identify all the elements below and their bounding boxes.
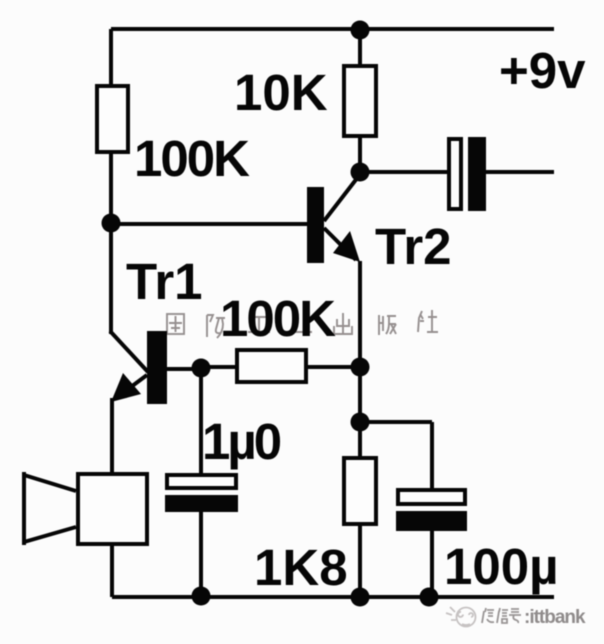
node F junction dot (Tr2 emitter / R3) [351,358,370,377]
transistor Q1 Tr1 bar [147,331,167,404]
svg-text:1K8: 1K8 [254,539,348,596]
resistor R2 10K (vertical) [344,66,376,136]
svg-text:10K: 10K [234,64,328,121]
resistor R1 100K (top left vertical) [97,86,128,152]
watermark 防 [207,315,225,338]
wire: node E to output capacitor [360,170,449,174]
capacitor C3 100u top plate [398,490,465,504]
watermark 版 [379,315,396,335]
svg-text:Tr1: Tr1 [126,253,203,310]
node I junction dot on bottom rail [420,588,439,607]
wire: node G down through R4 to bottom rail [358,422,362,597]
svg-text:100µ: 100µ [444,538,558,595]
wire: Tr1 base to node B [167,367,201,371]
node B junction dot (Tr1 base / R3 / C1) [192,359,211,378]
capacitor C2 output right plate [468,137,486,211]
wire: base rail to Tr2 [111,222,307,226]
node D junction dot on top rail [351,21,370,40]
capacitor C1 1u0 top plate [167,475,236,488]
microphone MIC cone [24,472,76,545]
svg-text:1µ0: 1µ0 [202,413,281,470]
node G junction dot (R4 / C3 branch) [351,413,370,432]
wire: +9v top rail [111,27,554,31]
svg-text:Tr2: Tr2 [375,218,452,275]
wire: Tr2 emitter down to node F [358,261,362,368]
transistor Q2 Tr2 collector diagonal [324,177,358,221]
wire: node B down to capacitor C1 [199,368,203,474]
transistor Q2 Tr2 emitter diagonal [324,228,356,260]
wire: top rail to R2 [358,29,362,66]
watermark 工 [248,317,270,332]
node H junction dot on bottom rail [351,588,370,607]
wechat label 微 [482,608,494,623]
transistor Q1 Tr1 emitter arrow [111,373,141,402]
transistor Q1 Tr1 collector diagonal [110,331,148,372]
wechat label 号 [509,609,521,623]
wire: left vertical from rail to Tr1 collector [109,29,113,334]
transistor Q2 Tr2 emitter arrow [333,231,360,262]
capacitor C1 1u0 bottom plate [165,495,238,512]
svg-text:100K: 100K [134,130,250,187]
wire: output capacitor to right [486,170,554,174]
resistor R4 1K8 (vertical) [344,458,376,524]
capacitor C3 100u bottom plate [396,511,467,531]
resistor R3 100K (horizontal feedback) [237,350,306,382]
watermark 出 [334,313,352,334]
wire: microphone to bottom rail [110,546,114,597]
wire: C1 to bottom rail [199,512,203,597]
watermark 社 [418,310,438,332]
transistor Q1 Tr1 emitter diagonal [116,375,147,398]
wire: C3 to bottom rail [430,531,434,597]
microphone MIC body [78,474,147,544]
svg-text::ittbank: :ittbank [524,607,586,628]
node C junction dot on bottom rail [192,587,211,606]
svg-text:100K: 100K [220,290,336,347]
node A junction dot (base of Tr2 / 100K) [102,214,121,233]
wechat label 信 [497,608,508,623]
wire: node B to node F through R3 [201,365,360,369]
wire: node F to node G [358,367,362,424]
watermark 国 [167,314,184,334]
node E junction dot (Tr2 collector / output) [351,163,370,182]
wire: node G branch to C3 [360,422,432,490]
wire: Tr1 emitter down to microphone [110,398,114,474]
svg-text:+9v: +9v [499,42,586,99]
wire: bottom ground rail [112,595,554,599]
transistor Q2 Tr2 bar [307,187,324,263]
wechat logo sketch [446,607,476,627]
capacitor C2 output left plate [449,139,461,209]
wire: R2 to node E [358,136,362,174]
watermark 业 [290,315,312,332]
